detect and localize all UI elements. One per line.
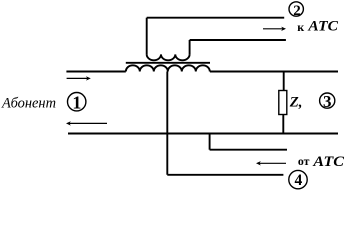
node 3 circle	[320, 93, 335, 108]
transformer T1 secondary winding	[147, 54, 190, 60]
transformer T1 core	[126, 62, 210, 64]
wire top к АТС line 1	[147, 17, 285, 19]
svg-text:АТС: АТС	[312, 154, 345, 170]
wire secondary left lead	[146, 18, 148, 55]
arrow от АТС	[256, 161, 286, 165]
transformer T1 primary winding	[126, 65, 210, 71]
wire subscriber top right	[210, 71, 338, 73]
wire subscriber bottom	[68, 133, 338, 135]
wire Z bottom lead	[282, 115, 284, 134]
node 1 circle	[68, 93, 86, 111]
svg-text:АТС: АТС	[307, 18, 338, 35]
svg-text:1: 1	[72, 93, 81, 113]
wire от АТС line 1	[210, 149, 287, 151]
node 2 circle	[289, 2, 303, 16]
svg-text:4: 4	[295, 172, 303, 189]
node 4 circle	[289, 170, 307, 188]
wire secondary right lead	[189, 40, 191, 54]
wire от АТС line 2	[167, 174, 283, 176]
wire subscriber top left	[66, 71, 125, 73]
arrow к АТС	[263, 27, 286, 31]
svg-text:к: к	[297, 20, 304, 34]
arrow subscriber to line	[67, 76, 91, 80]
arrow line to subscriber	[66, 121, 107, 125]
wire к АТС line 2	[190, 39, 286, 41]
wire Z top lead	[283, 72, 285, 91]
resistor Z	[279, 91, 287, 115]
svg-text:3: 3	[323, 92, 332, 111]
wire center tap vertical	[166, 72, 168, 175]
svg-text:от: от	[298, 154, 310, 168]
svg-text:Z,: Z,	[289, 94, 303, 110]
wire от АТС branch vertical	[209, 134, 211, 150]
svg-text:2: 2	[293, 3, 301, 19]
svg-text:Абонент: Абонент	[1, 96, 56, 112]
